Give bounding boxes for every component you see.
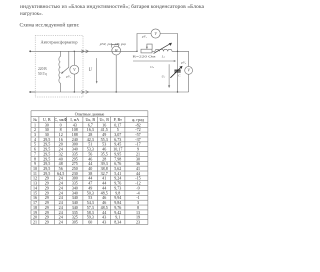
autotransformer winding vertical leads — [59, 51, 61, 92]
voltmeter pV2 right wire — [160, 34, 177, 52]
autotransformer winding bumps — [59, 57, 60, 83]
capacitor C bottom lead — [177, 72, 179, 92]
svg-text:W: W — [115, 48, 119, 53]
resistor slider link — [147, 44, 152, 49]
voltmeter pV2 left wire — [137, 34, 151, 52]
svg-text:нагрузок».: нагрузок». — [20, 11, 43, 17]
wire L to node — [172, 50, 189, 52]
svg-text:индуктивностью из «Блока индук: индуктивностью из «Блока индуктивностей»… — [20, 3, 205, 10]
svg-text:V: V — [154, 31, 157, 36]
svg-text:Схема исследуемой цепи:: Схема исследуемой цепи: — [20, 21, 80, 28]
inductor Lk bumps — [155, 49, 172, 51]
svg-text:43: 43 — [102, 219, 106, 224]
svg-text:Lк: Lк — [161, 55, 166, 59]
table: opytnye dannye — [31, 111, 148, 225]
resistor slider arrow head — [146, 47, 148, 49]
wire: bottom rail — [30, 91, 189, 93]
voltmeter pV3 leads — [188, 51, 190, 92]
svg-text:23: 23 — [136, 219, 140, 224]
svg-text:V: V — [187, 68, 190, 73]
svg-text:Автотрансформатор: Автотрансформатор — [41, 40, 78, 45]
autotransformer slider arrow head — [61, 71, 63, 74]
svg-text:24: 24 — [59, 219, 63, 224]
voltmeter pV3 circle — [185, 67, 193, 75]
arrow Uk (coil branch voltage) — [133, 60, 176, 62]
output terminal chevrons top — [81, 50, 88, 53]
autotransformer slider wire — [62, 51, 69, 73]
wire: top rail — [35, 50, 137, 52]
svg-text:Uс: Uс — [162, 75, 166, 79]
svg-text:29: 29 — [45, 219, 49, 224]
svg-text:№: № — [33, 117, 37, 122]
svg-text:pV₃: pV₃ — [180, 60, 187, 64]
svg-text:60: 60 — [88, 219, 92, 224]
resistor R box — [141, 49, 152, 53]
meter letters — [73, 31, 190, 73]
arrow Uc (capacitor voltage) — [168, 64, 170, 88]
wattmeter top bracket — [112, 44, 119, 47]
instrument labels — [65, 34, 187, 78]
component labels — [89, 55, 182, 79]
wattmeter circle — [112, 46, 121, 55]
junction dots — [29, 50, 178, 93]
capacitor C top lead — [177, 51, 179, 70]
svg-text:U: U — [89, 68, 93, 73]
svg-text:pW, pA, pF, pφ: pW, pA, pF, pφ — [98, 42, 126, 47]
voltmeter pV1 circle — [70, 65, 79, 74]
input stub top — [30, 50, 35, 52]
autotransformer dashed box — [35, 36, 83, 98]
svg-text:50 Гц: 50 Гц — [38, 72, 47, 76]
voltmeter pV1 branch wires — [73, 51, 75, 92]
output terminal chevrons bottom — [81, 91, 88, 94]
wire R to L — [152, 50, 155, 52]
wattmeter voltage branch wire — [115, 55, 117, 92]
capacitor C plates — [174, 70, 180, 72]
arrow U (source voltage) — [96, 58, 98, 84]
svg-text:Опытные данные: Опытные данные — [75, 111, 105, 116]
svg-text:21: 21 — [33, 219, 37, 224]
svg-text:220 В: 220 В — [38, 67, 47, 71]
svg-text:pV₁: pV₁ — [65, 75, 71, 79]
svg-text:C: C — [178, 73, 181, 77]
inductor variable arrow — [154, 43, 172, 54]
svg-text:305: 305 — [72, 219, 78, 224]
svg-text:pV₂: pV₂ — [141, 34, 148, 38]
svg-text:R=220 Ом: R=220 Ом — [133, 55, 157, 59]
capacitor variable arrow — [170, 66, 182, 78]
svg-text:V: V — [73, 67, 76, 72]
voltmeter pV2 circle — [151, 29, 160, 38]
input stub bottom — [30, 91, 35, 93]
svg-text:Uк: Uк — [150, 65, 154, 69]
